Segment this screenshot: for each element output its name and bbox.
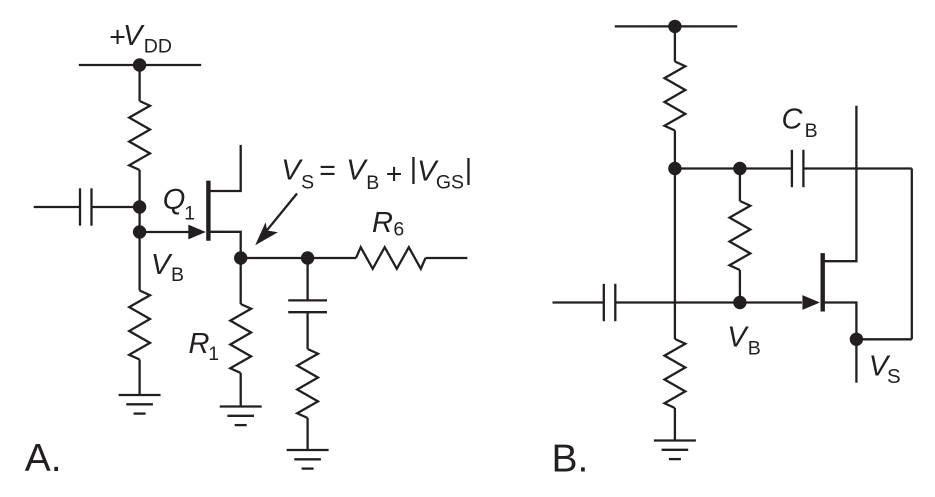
wire to ground xyxy=(306,418,308,450)
wire R6 output xyxy=(426,257,468,259)
svg-text:+: + xyxy=(386,158,403,190)
svg-text:B: B xyxy=(805,120,818,142)
svg-text:|: | xyxy=(410,153,417,185)
wire feedback vertical xyxy=(911,169,913,340)
svg-text:S: S xyxy=(301,171,314,193)
node source dot (circuit A) xyxy=(234,251,247,264)
wire right bias branch down to mid resistor xyxy=(739,169,741,202)
source lead (circuit B) xyxy=(824,303,857,340)
svg-text:B.: B. xyxy=(552,438,589,481)
wire VB node to Q1 gate xyxy=(140,231,189,233)
node bias dot left xyxy=(668,162,681,175)
resistor R6 xyxy=(356,247,426,269)
svg-text:Q: Q xyxy=(163,184,186,216)
resistor lower divider (circuit A) xyxy=(129,291,150,360)
node VB dot (circuit A) xyxy=(133,225,146,238)
resistor upper divider (circuit B) xyxy=(665,62,686,131)
wire rail to upper resistor xyxy=(674,26,676,61)
wire resistor to gate node xyxy=(138,170,140,232)
svg-text:B: B xyxy=(748,338,761,360)
wire source to feedback corner xyxy=(856,338,911,340)
formula VS = VB + |VGS| xyxy=(281,153,472,194)
wire to CB xyxy=(740,167,791,169)
svg-text:V: V xyxy=(123,20,145,52)
svg-text:|: | xyxy=(465,154,472,186)
svg-text:V: V xyxy=(281,155,303,187)
svg-text:B: B xyxy=(366,172,379,194)
svg-text:=: = xyxy=(319,155,336,187)
wire to bias node xyxy=(674,131,676,169)
wire bias node down through gate row xyxy=(674,169,676,340)
capacitor input coupling (circuit A) xyxy=(34,206,80,208)
capacitor source bypass (circuit A) xyxy=(288,299,327,301)
junction dot on VDD rail xyxy=(133,58,146,71)
annotation arrow to source node xyxy=(267,194,298,231)
node VB dot (circuit B) xyxy=(733,296,746,309)
capacitor CB xyxy=(791,150,793,187)
wire source row (circuit A) xyxy=(241,257,308,259)
wire bypass node down to cap xyxy=(306,258,308,300)
svg-text:A.: A. xyxy=(25,437,62,480)
wire to ground B xyxy=(674,408,676,441)
svg-text:R: R xyxy=(189,328,210,360)
svg-text:1: 1 xyxy=(208,343,219,365)
svg-text:R: R xyxy=(372,207,393,239)
resistor upper divider (circuit A) xyxy=(129,101,150,170)
node bypass dot xyxy=(301,251,314,264)
wire VB node down to lower divider resistor xyxy=(138,232,140,291)
svg-text:V: V xyxy=(727,321,749,353)
svg-text:6: 6 xyxy=(393,219,404,241)
node bias dot right xyxy=(733,162,746,175)
svg-text:S: S xyxy=(887,365,901,388)
wire cap to resistor xyxy=(306,312,308,349)
wire rail to resistor xyxy=(138,65,140,101)
gate arrowhead Q1 xyxy=(188,225,206,240)
resistor mid divider (circuit B) xyxy=(730,201,751,270)
Q1 drain lead xyxy=(210,145,241,191)
wire bias node to CB branch xyxy=(675,167,740,169)
svg-text:V: V xyxy=(346,155,368,187)
resistor below bypass cap xyxy=(297,349,318,418)
svg-text:C: C xyxy=(782,103,804,135)
node cap junction dot xyxy=(133,200,146,213)
gate arrowhead (circuit B) xyxy=(802,295,820,310)
wire gate (circuit B) xyxy=(740,301,802,303)
wire CB to feedback corner (crosses drain) xyxy=(804,167,912,169)
capacitor input coupling (circuit B) xyxy=(553,301,604,303)
svg-text:1: 1 xyxy=(184,203,195,225)
resistor R1 xyxy=(230,304,251,373)
transistor Q1 channel bar xyxy=(206,181,210,241)
wire to VB node B xyxy=(739,270,741,303)
wire R1 to ground xyxy=(240,373,242,407)
junction dot on rail B xyxy=(668,20,681,33)
svg-text:B: B xyxy=(171,264,184,286)
svg-text:DD: DD xyxy=(144,35,172,57)
wire source node down to R1 xyxy=(240,258,242,304)
wire VS output stub xyxy=(855,339,857,382)
wire to ground xyxy=(138,360,140,396)
node +VDD supply rail (circuit A) xyxy=(79,64,201,66)
svg-text:V: V xyxy=(151,249,173,281)
Q1 source lead xyxy=(210,232,241,258)
svg-text:GS: GS xyxy=(436,172,464,194)
ground bypass branch xyxy=(287,449,329,451)
ground R1 xyxy=(220,405,262,407)
ground lower divider (circuit A) xyxy=(119,394,161,396)
ground (circuit B) xyxy=(654,439,696,441)
transistor channel bar (circuit B) xyxy=(821,253,825,311)
wire to R6 xyxy=(308,257,356,259)
node VS dot (circuit B) xyxy=(850,333,863,346)
supply rail (circuit B) xyxy=(615,25,737,27)
drain lead (circuit B) xyxy=(824,106,857,262)
resistor lower left (circuit B) xyxy=(665,339,686,408)
